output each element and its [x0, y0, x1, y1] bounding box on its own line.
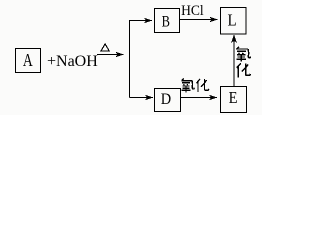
svg-text:E: E	[229, 89, 238, 107]
svg-text:HCl: HCl	[181, 3, 204, 20]
svg-text:B: B	[162, 13, 170, 31]
svg-text:A: A	[23, 52, 33, 71]
svg-text:D: D	[161, 90, 171, 108]
svg-text:L: L	[228, 12, 237, 30]
svg-text:+NaOH: +NaOH	[47, 53, 98, 70]
